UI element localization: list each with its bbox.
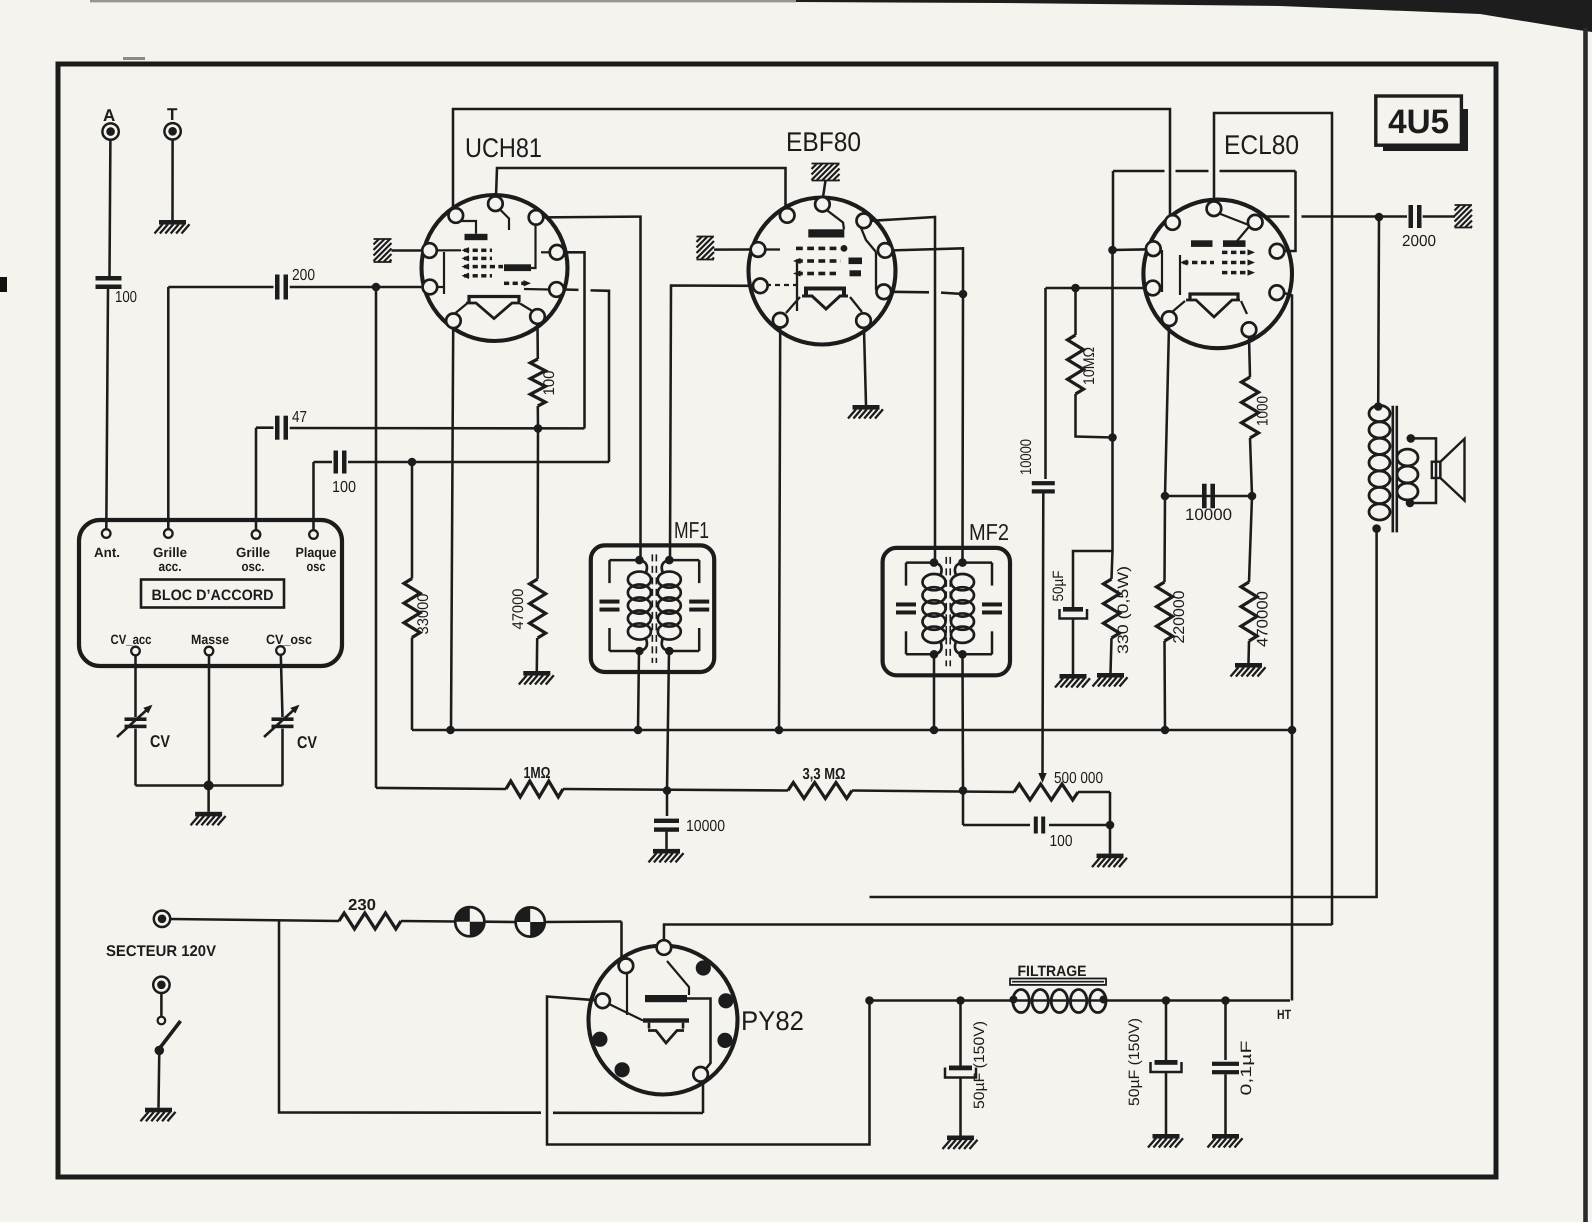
svg-text:47000: 47000 [510, 588, 527, 629]
svg-text:1MΩ: 1MΩ [524, 765, 551, 782]
svg-text:500 000: 500 000 [1054, 770, 1103, 787]
svg-text:CV_acc: CV_acc [111, 632, 152, 647]
svg-text:33000: 33000 [415, 593, 432, 634]
svg-text:MF1: MF1 [674, 517, 709, 543]
svg-text:100: 100 [1050, 833, 1073, 850]
svg-text:CV: CV [150, 732, 171, 751]
svg-text:Plaque: Plaque [296, 545, 337, 560]
svg-text:osc.: osc. [242, 559, 265, 574]
svg-text:200: 200 [292, 267, 315, 284]
svg-text:50µF (150V): 50µF (150V) [971, 1021, 988, 1109]
svg-text:10MΩ: 10MΩ [1081, 347, 1098, 385]
svg-text:Masse: Masse [191, 632, 229, 647]
svg-text:BLOC D’ACCORD: BLOC D’ACCORD [152, 587, 274, 604]
svg-text:50µF: 50µF [1050, 571, 1067, 602]
svg-text:acc.: acc. [159, 559, 182, 574]
svg-text:1000: 1000 [1255, 396, 1272, 426]
svg-text:FILTRAGE: FILTRAGE [1018, 963, 1087, 980]
svg-text:ECL80: ECL80 [1224, 130, 1299, 160]
svg-text:osc: osc [307, 559, 326, 574]
svg-text:UCH81: UCH81 [465, 133, 542, 163]
svg-text:220000: 220000 [1171, 590, 1188, 643]
svg-text:PY82: PY82 [741, 1006, 804, 1036]
svg-text:230: 230 [348, 897, 376, 914]
svg-text:3,3 MΩ: 3,3 MΩ [803, 766, 846, 783]
svg-text:47: 47 [292, 409, 307, 426]
svg-text:10000: 10000 [1018, 439, 1035, 475]
svg-text:Grille: Grille [153, 545, 187, 560]
svg-text:10000: 10000 [1185, 506, 1232, 524]
svg-text:T: T [167, 105, 178, 124]
svg-text:100: 100 [332, 479, 356, 496]
svg-text:50µF (150V): 50µF (150V) [1126, 1018, 1143, 1106]
svg-text:330 (0,5W): 330 (0,5W) [1115, 566, 1132, 654]
svg-text:EBF80: EBF80 [786, 127, 861, 157]
svg-text:A: A [103, 106, 115, 125]
svg-text:HT: HT [1277, 1007, 1292, 1022]
svg-text:CV_osc: CV_osc [266, 632, 312, 647]
svg-text:Grille: Grille [236, 545, 270, 560]
svg-text:100: 100 [541, 370, 558, 395]
svg-text:SECTEUR 120V: SECTEUR 120V [106, 943, 217, 960]
svg-text:10000: 10000 [686, 818, 725, 835]
svg-text:2000: 2000 [1402, 233, 1436, 250]
svg-text:100: 100 [115, 289, 137, 306]
svg-text:470000: 470000 [1255, 591, 1272, 647]
svg-text:Ant.: Ant. [94, 545, 120, 560]
svg-text:CV: CV [297, 733, 318, 752]
svg-text:4U5: 4U5 [1388, 103, 1449, 141]
svg-text:0,1µF: 0,1µF [1238, 1041, 1255, 1096]
svg-text:MF2: MF2 [969, 519, 1009, 545]
